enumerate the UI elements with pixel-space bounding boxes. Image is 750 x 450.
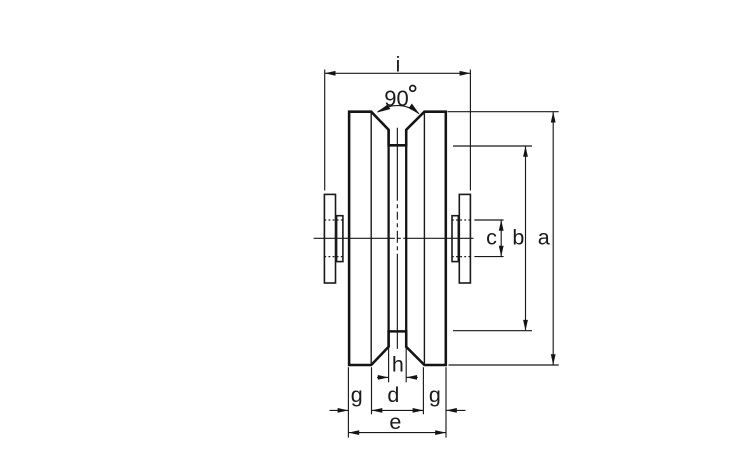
dimension i extension line right [469, 70, 471, 191]
dimension h line left tail [377, 376, 389, 378]
dimension d line [372, 409, 424, 411]
dimension c extension bottom [474, 256, 503, 258]
hub boss outer rect left [324, 194, 335, 283]
dimension i line [325, 72, 471, 74]
dimension b arrow bottom [523, 320, 528, 331]
dimension a line [552, 112, 554, 365]
wheel cross-section outline [349, 112, 446, 365]
groove slot left wall [387, 130, 389, 347]
dimension e arrow right [435, 430, 446, 435]
hub boss inner rect right [452, 216, 458, 262]
dimension e line [348, 432, 446, 434]
dimension g left tail [330, 409, 349, 411]
dimension i arrow left [325, 71, 336, 76]
dimension c line [500, 220, 502, 257]
chain dimension extension mid right [422, 367, 424, 414]
dimension b extension top [453, 145, 532, 147]
hidden bore line right top [452, 219, 470, 221]
dimension h arrow left [378, 375, 389, 380]
svg-text:g: g [429, 383, 441, 407]
dimension i arrow right [460, 71, 471, 76]
hidden bore line right bottom [452, 256, 470, 258]
dimension h line right tail [406, 376, 418, 378]
chain dimension extension far right [445, 367, 447, 437]
dimension g left arrow [338, 408, 349, 413]
dimension a arrow top [551, 112, 556, 123]
dimension g right tail [446, 409, 466, 411]
dimension e arrow left [348, 430, 359, 435]
dimension b arrow top [523, 146, 528, 157]
dimension d arrow right [413, 408, 424, 413]
dimension i extension line left [324, 70, 326, 191]
dimension h arrow right [406, 375, 417, 380]
svg-text:g: g [351, 383, 363, 407]
angle arc [378, 106, 419, 114]
svg-text:i: i [396, 53, 401, 76]
svg-text:c: c [486, 225, 497, 249]
angle arc arrow right [409, 104, 420, 115]
chain dimension extension mid left [371, 367, 373, 414]
svg-text:e: e [389, 410, 401, 434]
svg-text:b: b [512, 226, 524, 250]
dimension h extension right [405, 348, 407, 383]
groove corner projection line right [423, 113, 425, 364]
hub boss outer rect right [459, 194, 470, 283]
svg-text:d: d [387, 383, 399, 407]
hidden bore line left top [324, 219, 343, 221]
groove slot right wall [405, 130, 407, 347]
hidden bore line left bottom [324, 256, 343, 258]
hub boss inner rect left [337, 216, 343, 262]
dimension b line [525, 146, 527, 331]
dimension a arrow bottom [551, 354, 556, 365]
dimension a extension top [448, 111, 559, 113]
svg-text:h: h [392, 353, 404, 377]
chain dimension extension far left [347, 367, 349, 437]
dimension d arrow left [372, 408, 383, 413]
dimension g right arrow [446, 408, 457, 413]
vertical centerline [396, 128, 398, 349]
dimension b extension bottom [453, 330, 532, 332]
dimension c arrow bottom [499, 246, 504, 257]
groove corner projection line left [370, 113, 372, 364]
dimension h extension left [388, 348, 390, 383]
dimension c arrow top [499, 220, 504, 231]
dimension c extension top [474, 219, 503, 221]
dimension a extension bottom [449, 364, 559, 366]
svg-text:a: a [538, 225, 550, 249]
angle arc arrow left [377, 105, 391, 113]
horizontal centerline [314, 237, 474, 239]
